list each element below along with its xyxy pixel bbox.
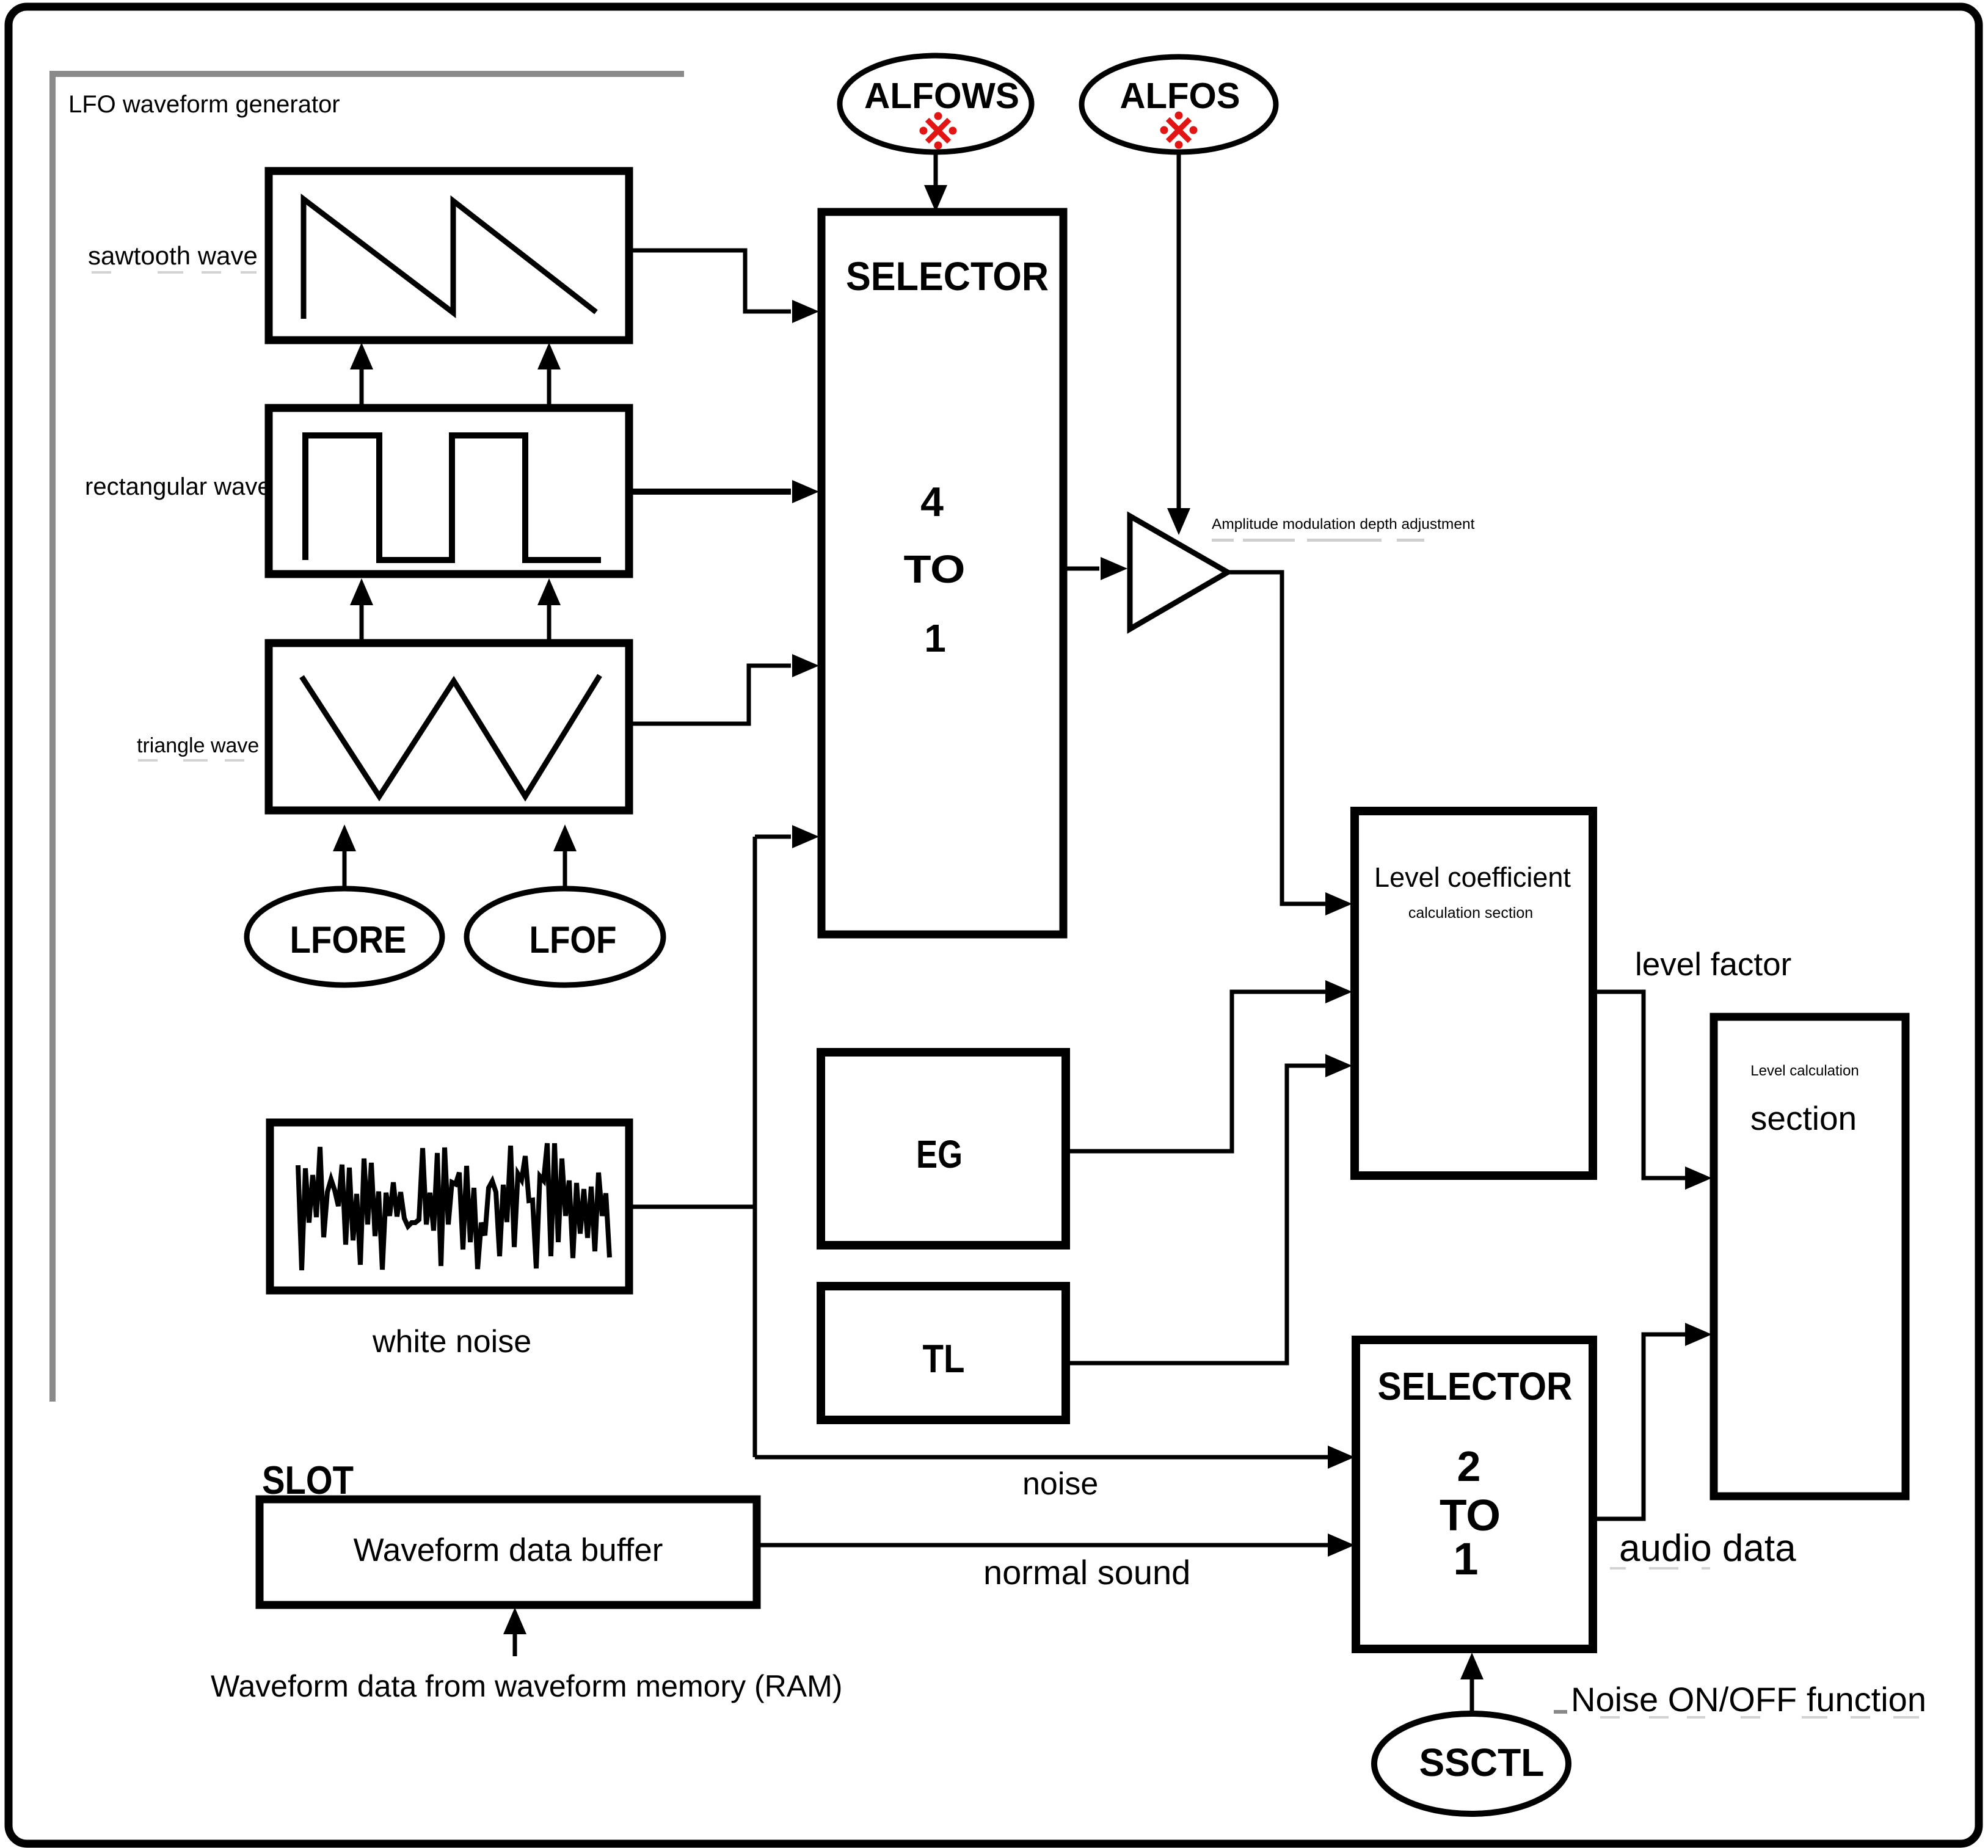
svg-text:Noise ON/OFF function: Noise ON/OFF function: [1571, 1680, 1926, 1719]
svg-text:SSCTL: SSCTL: [1419, 1741, 1545, 1784]
svg-text:ALFOS: ALFOS: [1120, 76, 1240, 116]
svg-text:Amplitude modulation depth adj: Amplitude modulation depth adjustment: [1212, 516, 1475, 533]
svg-text:Waveform data from waveform me: Waveform data from waveform memory (RAM): [211, 1669, 842, 1703]
svg-text:1: 1: [924, 616, 946, 660]
svg-text:audio data: audio data: [1619, 1527, 1796, 1570]
svg-text:noise: noise: [1022, 1466, 1098, 1502]
svg-text:TL: TL: [923, 1336, 965, 1381]
svg-text:calculation section: calculation section: [1408, 904, 1533, 922]
svg-text:LFO waveform generator: LFO waveform generator: [68, 91, 340, 118]
svg-text:SELECTOR: SELECTOR: [846, 253, 1049, 299]
svg-text:EG: EG: [916, 1132, 963, 1176]
svg-text:Waveform data buffer: Waveform data buffer: [354, 1532, 663, 1568]
svg-text:1: 1: [1453, 1533, 1478, 1584]
svg-text:triangle wave: triangle wave: [137, 734, 259, 757]
svg-text:sawtooth wave: sawtooth wave: [88, 241, 258, 270]
svg-text:2: 2: [1457, 1442, 1481, 1490]
svg-text:TO: TO: [1440, 1491, 1501, 1540]
svg-text:SELECTOR: SELECTOR: [1378, 1364, 1573, 1408]
svg-text:TO: TO: [904, 547, 966, 591]
svg-text:section: section: [1750, 1099, 1857, 1137]
svg-text:4: 4: [920, 479, 944, 525]
svg-text:normal sound: normal sound: [983, 1553, 1190, 1592]
svg-text:rectangular wave: rectangular wave: [85, 473, 271, 500]
svg-text:SLOT: SLOT: [262, 1458, 354, 1502]
svg-text:level factor: level factor: [1635, 947, 1791, 983]
svg-text:LFORE: LFORE: [290, 919, 407, 961]
svg-text:LFOF: LFOF: [530, 919, 617, 961]
svg-text:Level calculation: Level calculation: [1750, 1063, 1859, 1079]
svg-text:Level coefficient: Level coefficient: [1374, 862, 1571, 893]
svg-text:white noise: white noise: [372, 1324, 531, 1359]
svg-text:ALFOWS: ALFOWS: [864, 76, 1019, 116]
